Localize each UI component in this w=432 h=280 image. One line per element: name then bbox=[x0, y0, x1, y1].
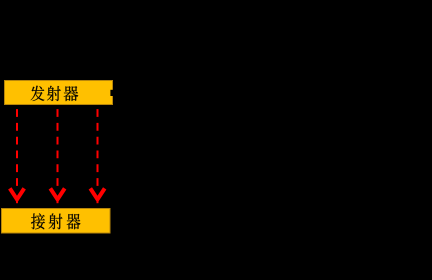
arrow A1 dashed shaft bbox=[16, 109, 18, 186]
transmitter label text 发射器 bbox=[31, 86, 78, 101]
arrow A3 tip stub bbox=[97, 199, 99, 203]
transmitter box (发射器) bbox=[5, 81, 113, 105]
arrow A2 arrowhead bbox=[50, 188, 64, 199]
arrow A2 tip stub bbox=[57, 199, 59, 203]
receiver label text 接射器 bbox=[31, 213, 80, 229]
arrow A2 dashed shaft bbox=[57, 109, 59, 186]
arrow A1 tip stub bbox=[16, 199, 18, 203]
receiver box (接射器) bbox=[2, 209, 111, 234]
arrow A1 arrowhead bbox=[10, 188, 24, 199]
notch on right edge of transmitter box bbox=[110, 90, 113, 96]
arrow A3 dashed shaft bbox=[97, 109, 99, 186]
arrow A3 arrowhead bbox=[90, 188, 104, 199]
